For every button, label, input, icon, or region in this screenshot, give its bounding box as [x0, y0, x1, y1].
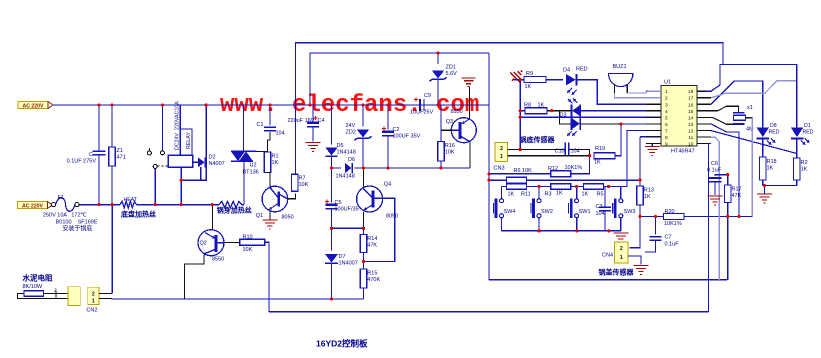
- wire: sub rail y=53: [310, 53, 489, 105]
- svg-text:R17: R17: [732, 187, 742, 193]
- svg-text:SW4: SW4: [504, 209, 516, 215]
- fuse F1 value text: [43, 213, 98, 233]
- capacitor C 0.1UF 275V: [93, 151, 106, 155]
- svg-text:C: C: [89, 152, 93, 158]
- wire: buzzer right leg: [626, 85, 628, 93]
- wire: buzzer left to pin2: [615, 93, 662, 98]
- svg-text:1: 1: [92, 298, 95, 304]
- svg-text:Q1: Q1: [256, 213, 263, 219]
- wire: pin9 stub: [652, 142, 661, 144]
- svg-text:CN3: CN3: [494, 166, 505, 172]
- wire: SW3 top: [620, 187, 622, 199]
- net label AC 220V (bottom): [18, 202, 53, 210]
- triac U2 BT136: [231, 151, 259, 175]
- wire: Z1 node down to CN2 pin2: [111, 205, 113, 294]
- wire: CN3 pin2 riser: [519, 80, 521, 150]
- wire: relay coil feed left: [180, 105, 192, 155]
- label cement resistor: [23, 273, 53, 283]
- capacitor C value: [67, 152, 97, 165]
- svg-text:R15: R15: [367, 271, 377, 277]
- capacitor C2 100UF35V: [382, 127, 421, 140]
- svg-text:ZD1: ZD1: [446, 65, 456, 71]
- LED D8 RED: [757, 123, 780, 145]
- svg-text:220uF 16V: 220uF 16V: [288, 118, 315, 124]
- wire: 24V rail y=168: [332, 167, 342, 169]
- svg-text:17: 17: [688, 96, 694, 102]
- fuse F1: [51, 195, 79, 211]
- svg-text:底盘加热丝: 底盘加热丝: [121, 210, 156, 219]
- wire: Q2 collector down: [185, 255, 204, 300]
- wire: 24V rail y=168 part2: [355, 167, 471, 169]
- svg-text:Z1: Z1: [117, 148, 123, 154]
- svg-text:C9: C9: [424, 93, 431, 99]
- svg-text:R9: R9: [526, 71, 533, 77]
- resistor R16 10K: [438, 142, 455, 162]
- svg-text:4: 4: [665, 109, 668, 115]
- svg-text:RED: RED: [803, 130, 814, 136]
- wire: Q3 base from R16 node: [441, 129, 452, 131]
- wire: SW4 drop: [501, 187, 503, 199]
- svg-text:D7: D7: [339, 254, 346, 260]
- wire: R13 riser to pin8: [640, 136, 661, 138]
- wire: R14-R15 node: [363, 253, 365, 270]
- diode D2 1N4007: [198, 155, 225, 168]
- wire: ZD1 bottom lead: [437, 79, 439, 105]
- wire: relay pin down to rail: [180, 167, 182, 205]
- svg-text:470K: 470K: [367, 277, 380, 283]
- relay contact circles: [147, 148, 164, 168]
- wire: Q4 base from 24V rail: [363, 168, 365, 186]
- wire: pin13 riser: [711, 124, 739, 217]
- svg-text:Q4: Q4: [384, 182, 391, 188]
- wire: CN2 pin2 wire: [99, 292, 112, 294]
- wire: pin12 shallow diagonal to R2: [711, 131, 797, 158]
- capacitor C1 104: [257, 122, 285, 137]
- wire: cap C lead bottom: [98, 155, 100, 205]
- svg-text:471: 471: [117, 155, 126, 161]
- svg-text:N4007: N4007: [209, 161, 225, 167]
- resistor R11 labels: [508, 192, 531, 198]
- wire: C1 to R1 (black): [268, 132, 271, 152]
- wire: Q4 collector loop: [364, 198, 395, 261]
- wire: Q2 base to R10: [224, 241, 240, 243]
- wire: CN3 pin2 stub: [508, 149, 521, 151]
- switch SW3: [613, 199, 636, 219]
- svg-text:R14: R14: [367, 236, 377, 242]
- resistor R12 10K1%: [551, 171, 571, 177]
- wire: contact to bottom rail: [154, 168, 156, 204]
- wire: ZD1 top lead: [437, 53, 439, 64]
- resistor R9 1K: [524, 77, 546, 83]
- relay K1 coil box: [168, 155, 193, 167]
- wire: bus riser to pin10: [708, 144, 710, 312]
- svg-text:B0100 SF169E: B0100 SF169E: [56, 220, 98, 226]
- wire: C2 top lead: [387, 105, 389, 130]
- wire: C3 bottom: [604, 211, 606, 231]
- wire: R18 bottom: [762, 180, 764, 185]
- heating element pot body: [219, 201, 242, 207]
- wire: D3 to pin4: [581, 110, 662, 112]
- wire: SW3 bottom: [620, 218, 622, 231]
- svg-text:C6: C6: [711, 161, 718, 167]
- ground (SW rail): [613, 233, 628, 242]
- wire: buzzer left leg: [614, 85, 616, 93]
- wire: SW bottoms to rail: [501, 218, 503, 231]
- wire: flyback loop bottom: [181, 167, 201, 180]
- wire: fuse to C/Z1 segment: [79, 204, 120, 206]
- wire: C5 chain top: [331, 168, 333, 203]
- wire: triac MT2 feed: [243, 105, 245, 151]
- wire: crystal tap riser: [751, 118, 753, 217]
- wire: R9 to D4: [546, 79, 563, 81]
- wire: Q1 emitter stub: [269, 212, 271, 220]
- resistor R11 1K: [507, 184, 527, 190]
- svg-text:8: 8: [665, 135, 668, 141]
- resistor R7 10K: [291, 174, 308, 191]
- wire: D3 bottom to pin6 node: [581, 123, 622, 125]
- resistor R15 470K: [360, 269, 380, 288]
- svg-text:10K: 10K: [299, 182, 309, 188]
- wire: CN4 pin1 to ground: [628, 256, 641, 265]
- resistor R3 1K: [551, 184, 571, 190]
- svg-text:10K: 10K: [243, 247, 253, 253]
- wire: D3 lower branch: [560, 111, 572, 124]
- connector CN4: [602, 242, 628, 263]
- svg-text:104: 104: [276, 131, 285, 137]
- resistor R13 1K: [637, 186, 654, 205]
- wire: ground stem R18: [764, 185, 766, 194]
- buzzer BUZ1: [609, 64, 633, 87]
- svg-text:R20: R20: [665, 209, 675, 215]
- resistor R12 labels: [548, 165, 582, 172]
- svg-text:CN4: CN4: [602, 253, 613, 259]
- svg-text:C3: C3: [596, 204, 603, 210]
- svg-text:5.6V: 5.6V: [446, 71, 458, 77]
- svg-text:5: 5: [665, 115, 668, 121]
- wire: pin10 stub: [709, 143, 712, 145]
- svg-text:AC 220V: AC 220V: [22, 103, 44, 109]
- svg-text:9: 9: [665, 142, 668, 148]
- svg-text:47K: 47K: [732, 193, 742, 199]
- wire: R8 left lead: [520, 110, 525, 112]
- diode D6 1N4148: [336, 157, 356, 180]
- wire: C4 top lead: [312, 105, 314, 121]
- svg-text:0.1UF 275V: 0.1UF 275V: [67, 159, 97, 165]
- IC U1 right pin stubs: [697, 91, 711, 143]
- resistor R17 47K: [724, 185, 741, 203]
- resistor R20 labels: [664, 209, 682, 227]
- wire: C9 left lead: [419, 104, 430, 106]
- wire: R17 bottom / box corner: [727, 203, 729, 280]
- varistor Z1 471: [109, 147, 126, 166]
- svg-text:C1: C1: [257, 122, 264, 128]
- svg-text:F1: F1: [58, 195, 64, 201]
- svg-text:8050: 8050: [386, 214, 398, 220]
- svg-text:锅身加热丝: 锅身加热丝: [216, 206, 252, 215]
- svg-text:1N4148: 1N4148: [336, 174, 355, 180]
- wire: relay coil feed stem: [179, 129, 181, 155]
- wire: buzzer right to pin1: [627, 91, 661, 93]
- wire: Z1 top lead: [111, 105, 113, 147]
- svg-text:0.1uF: 0.1uF: [707, 168, 722, 174]
- svg-text:1K: 1K: [508, 192, 515, 198]
- svg-text:16: 16: [688, 102, 694, 108]
- svg-text:47K: 47K: [367, 243, 377, 249]
- svg-text:R11: R11: [521, 192, 531, 198]
- LED D3 dual: [560, 99, 581, 137]
- wire: C10 to R19 node: [569, 150, 590, 156]
- svg-text:0.1uF: 0.1uF: [665, 242, 680, 248]
- svg-text:HEAT: HEAT: [124, 197, 138, 203]
- svg-text:11: 11: [688, 135, 693, 141]
- svg-text:R1: R1: [272, 154, 279, 160]
- wire: D8 to R18: [762, 139, 764, 157]
- wire: R12 line: [489, 173, 551, 175]
- svg-text:U2: U2: [250, 163, 257, 169]
- svg-text:6: 6: [665, 122, 668, 128]
- ground (Q1 emitter): [262, 220, 277, 229]
- svg-text:8K/10W: 8K/10W: [23, 284, 43, 290]
- capacitor C9 10UF25V: [410, 93, 434, 116]
- wire: R2 bottom to ground rail: [763, 180, 797, 185]
- svg-text:锅底传感器: 锅底传感器: [519, 135, 556, 144]
- svg-text:R7: R7: [299, 176, 306, 182]
- wire: Q3 collector down to rail: [469, 142, 471, 169]
- svg-text:RED: RED: [576, 67, 588, 73]
- svg-text:C7: C7: [665, 235, 672, 241]
- svg-text:C2: C2: [393, 127, 400, 133]
- svg-text:8550: 8550: [212, 257, 224, 263]
- wire: CN2 pin1 to return wire: [99, 298, 112, 300]
- switch SW4: [494, 199, 516, 219]
- connector plug (to CN2): [68, 287, 80, 306]
- wire: inner box left vertical: [488, 53, 490, 280]
- resistor R3 labels: [545, 191, 564, 198]
- svg-text:1K: 1K: [272, 160, 279, 166]
- svg-text:锅盖传感器: 锅盖传感器: [598, 268, 635, 277]
- ground (C6): [708, 196, 723, 205]
- svg-text:1: 1: [500, 154, 503, 160]
- svg-text:D2: D2: [209, 155, 216, 161]
- IC U1 HT46R47 body: [661, 80, 697, 155]
- wire: Q2 top to heater rail: [211, 205, 213, 230]
- wire: SW row wire: [502, 186, 507, 188]
- connector pin-2 marker (cement): [54, 288, 57, 298]
- svg-text:SW3: SW3: [624, 209, 636, 215]
- wire: pin11 riser: [711, 137, 719, 280]
- wire: R19 riser to pin6: [615, 124, 661, 156]
- svg-text:D8: D8: [770, 123, 777, 129]
- junction dots (main rails): [97, 51, 766, 300]
- ground (R18/R2): [757, 194, 772, 203]
- wire: crystal top lead: [700, 106, 739, 112]
- transistor Q1 8050: [256, 186, 294, 220]
- label bottom heater chinese: [121, 210, 156, 219]
- watermark www.elecfans.com: [220, 92, 479, 119]
- svg-text:1K: 1K: [644, 194, 651, 200]
- wire: pin5 line from sensor node: [520, 116, 661, 118]
- svg-text:R2: R2: [801, 160, 808, 166]
- wire: ZD2 top lead: [362, 105, 364, 127]
- resistor R1 1K: [264, 152, 278, 173]
- wire: SW3 row link: [609, 186, 621, 188]
- wire: D4 to pin3: [582, 80, 661, 105]
- wire: row R3-R5: [571, 186, 584, 188]
- wire: SW bottom rail: [502, 230, 621, 232]
- wire: R6 line right: [527, 179, 641, 181]
- wire: crystal bottom lead: [700, 117, 733, 124]
- wire: top rail y=42.6: [296, 43, 724, 175]
- wire: Q4 emitter to node228: [363, 212, 365, 229]
- svg-text:2: 2: [665, 96, 668, 102]
- svg-text:1K: 1K: [767, 166, 774, 172]
- zener ZD2 24V: [346, 123, 372, 140]
- svg-text:24V: 24V: [346, 123, 356, 129]
- wire: SW2 bottom: [538, 218, 540, 231]
- resistor R6 labels: [514, 168, 533, 174]
- svg-text:D6: D6: [348, 157, 355, 163]
- wire: C2 bottom lead: [387, 136, 389, 168]
- wire: R6 line: [489, 179, 507, 181]
- wire: R20 right line: [684, 216, 752, 218]
- heating element HEAT (bottom plate): [120, 201, 137, 207]
- label HEAT: [124, 197, 138, 203]
- switch SW2: [531, 199, 553, 219]
- switch SW1: [569, 199, 591, 219]
- svg-text:10K1%: 10K1%: [565, 165, 583, 171]
- wire: cement resistor right lead: [44, 293, 68, 295]
- svg-text:250V 10A 172℃: 250V 10A 172℃: [43, 213, 88, 219]
- wire: R8 to D3: [547, 110, 571, 112]
- resistor R2 1K: [794, 158, 808, 180]
- svg-text:R12: R12: [548, 166, 558, 172]
- title 16YD2: [316, 339, 368, 349]
- svg-text:R19: R19: [595, 146, 605, 152]
- svg-text:D4: D4: [563, 68, 570, 74]
- wire: CN3 pin2 to C10: [520, 149, 565, 151]
- wire: D2 left lead: [193, 161, 198, 163]
- svg-text:D5: D5: [337, 143, 344, 149]
- wire: heater rail right to triac: [242, 204, 244, 206]
- capacitor C3 104: [596, 204, 612, 217]
- wire: ground stem to Q3 emitter: [469, 87, 471, 118]
- LED D1 RED: [791, 123, 814, 145]
- wire: R14 top lead: [363, 228, 365, 234]
- label relay DC24V: [175, 101, 181, 150]
- wire: pin17 to D1 light line: [711, 81, 797, 98]
- svg-text:R18: R18: [767, 159, 777, 165]
- wire: cap C leads: [98, 105, 100, 151]
- svg-text:U1: U1: [664, 80, 671, 86]
- svg-text:1: 1: [665, 89, 668, 95]
- svg-text:100UF 35V: 100UF 35V: [393, 134, 421, 140]
- svg-text:R5: R5: [597, 192, 604, 198]
- svg-text:10: 10: [688, 142, 694, 148]
- wire: R1 to Q1 base (black): [268, 173, 270, 187]
- svg-text:D1: D1: [804, 123, 811, 129]
- wire: inner box bottom: [489, 279, 727, 281]
- wire: C6 bottom: [714, 182, 716, 195]
- wire: top feed to D1 column: [723, 64, 797, 127]
- svg-text:1K: 1K: [801, 167, 808, 173]
- wire: pin9 to ground: [651, 143, 653, 146]
- resistor R9 labels: [525, 71, 534, 90]
- svg-text:14: 14: [688, 115, 694, 121]
- svg-text:SW1: SW1: [579, 209, 591, 215]
- svg-text:1K: 1K: [538, 103, 545, 109]
- wire: pin16 to D8 line: [711, 81, 763, 127]
- capacitor C4 220uF16V: [288, 116, 325, 127]
- svg-text:R8: R8: [524, 103, 531, 109]
- svg-text:12: 12: [688, 128, 694, 134]
- capacitor C7 0.1uF: [650, 235, 680, 248]
- wire: D5 bottom lead: [331, 156, 333, 168]
- wire: D2 cathode up to rail: [205, 105, 207, 162]
- wire: D4 lead: [577, 79, 583, 81]
- svg-text:8550: 8550: [451, 109, 463, 115]
- svg-text:8050: 8050: [282, 215, 294, 221]
- resistor R10 labels: [243, 234, 253, 253]
- wire: R16 top lead: [440, 105, 442, 142]
- connector CN3: [494, 143, 508, 172]
- svg-text:2: 2: [92, 291, 95, 297]
- svg-text:13: 13: [688, 122, 694, 128]
- svg-text:18: 18: [688, 89, 694, 95]
- svg-text:1: 1: [620, 255, 623, 261]
- capacitor C10 104: [555, 143, 580, 157]
- capacitor C6 0.1uF: [707, 161, 722, 182]
- svg-text:104: 104: [596, 211, 605, 217]
- wire: SW1 bottom: [576, 218, 578, 231]
- wire: D5 top lead: [331, 105, 333, 145]
- svg-text:2: 2: [500, 146, 503, 152]
- net label AC 220V (top): [18, 102, 53, 110]
- resistor R5 labels: [582, 192, 604, 198]
- IC U1 left pin stubs: [646, 91, 661, 143]
- wire: bottom return wire y=299: [112, 298, 363, 300]
- svg-text:C4: C4: [318, 118, 325, 124]
- svg-text:10K: 10K: [445, 150, 455, 156]
- ground (near IC pin9): [645, 147, 660, 156]
- label RELAY: [186, 132, 192, 149]
- ground (C4): [306, 143, 321, 152]
- capacitor C5 100UF/35: [325, 200, 359, 213]
- svg-text:AC 220V: AC 220V: [22, 203, 44, 209]
- wire: C5 to node 228: [331, 209, 333, 229]
- label pot-bottom sensor: [519, 135, 556, 144]
- ground (above Q3): [461, 78, 475, 87]
- relay contact dashed link: [158, 165, 169, 167]
- wire: crystal tap stub: [746, 117, 753, 119]
- wire: relay contact feed from rail: [161, 105, 163, 151]
- svg-text:Q3: Q3: [446, 119, 453, 125]
- svg-text:10K1%: 10K1%: [664, 221, 682, 227]
- ground (CN4): [634, 266, 649, 275]
- wire: C7 tap: [655, 217, 657, 235]
- svg-text:1K: 1K: [594, 160, 601, 166]
- svg-text:2: 2: [620, 246, 623, 252]
- wire: R13 bottom to node: [639, 205, 641, 217]
- wire: R17 top: [727, 175, 729, 185]
- crystal X1 4M: [733, 105, 754, 133]
- label pot-lid sensor: [598, 268, 635, 277]
- svg-text:RED: RED: [769, 130, 780, 136]
- svg-text:R10: R10: [243, 234, 253, 240]
- connector CN2: [86, 287, 98, 313]
- svg-text:C5: C5: [335, 200, 342, 206]
- wire: row R11-R3: [527, 186, 552, 188]
- resistor R20 10K1%: [664, 214, 685, 220]
